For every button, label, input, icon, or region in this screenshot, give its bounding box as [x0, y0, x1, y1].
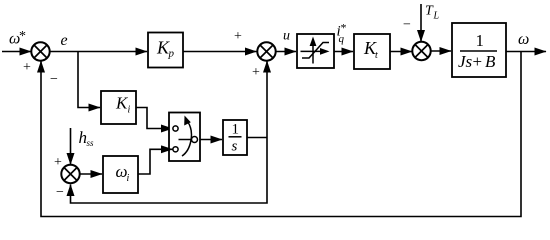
label TL (load torque): [425, 4, 440, 22]
wire plant output to omega: [506, 51, 546, 53]
svg-text:L: L: [433, 11, 440, 22]
wire switch to integrator: [200, 139, 222, 141]
svg-text:t: t: [375, 50, 378, 61]
svg-text:+: +: [234, 29, 242, 44]
wire e branch down to Ki: [78, 52, 100, 108]
wire S3 to plant block: [431, 50, 452, 52]
svg-text:u: u: [283, 29, 290, 44]
svg-text:−: −: [50, 72, 58, 87]
wire S4 to omega_i: [80, 173, 103, 175]
wire node up into S2: [266, 61, 268, 138]
svg-text:1: 1: [232, 122, 240, 138]
svg-text:i: i: [127, 173, 130, 184]
wire saturation to Kt: [334, 51, 353, 53]
svg-text:+: +: [252, 65, 260, 80]
svg-text:q: q: [339, 33, 345, 45]
wire integrator output to node: [247, 137, 267, 139]
wire Kt to S3: [390, 51, 412, 53]
svg-text:−: −: [56, 185, 64, 200]
label iq* (current reference): [337, 21, 347, 45]
svg-text:−: −: [403, 17, 411, 32]
summing junction S2: [257, 42, 275, 60]
wire node down and left to S4 (inner feedback): [71, 138, 268, 204]
svg-text:B: B: [485, 52, 496, 71]
block Kt: [354, 34, 390, 69]
wire omega_i to switch bottom input: [138, 149, 173, 174]
block saturation limiter U-sat: [297, 34, 334, 68]
wire Kp to S2: [183, 51, 257, 53]
svg-text:p: p: [168, 48, 175, 60]
svg-text:*: *: [19, 29, 26, 44]
svg-text:+: +: [473, 52, 483, 71]
block plant 1/(Js+B): [452, 23, 506, 77]
svg-text:ω: ω: [518, 31, 529, 48]
block Kp: [148, 33, 183, 68]
svg-text:1: 1: [476, 31, 485, 50]
wire hss down into S4: [70, 128, 72, 165]
summing junction S3: [412, 42, 430, 60]
svg-text:+: +: [54, 155, 62, 170]
summing junction S1: [31, 42, 49, 60]
wire S1 to Kp: [50, 51, 148, 53]
wire S2 to saturation block: [276, 51, 297, 53]
block switch SW: [169, 113, 200, 162]
wire TL down into S3: [420, 4, 422, 42]
block integrator 1/s: [223, 120, 247, 155]
wire input omega* to S1: [2, 51, 31, 53]
svg-text:ss: ss: [87, 138, 95, 148]
svg-text:+: +: [23, 60, 31, 75]
svg-text:i: i: [128, 105, 131, 116]
label omega* (reference speed): [9, 29, 26, 48]
summing junction S4: [61, 165, 79, 183]
svg-text:e: e: [61, 32, 68, 49]
label hss: [79, 128, 95, 148]
wire Ki to switch top input: [136, 108, 173, 129]
block Ki: [101, 91, 136, 124]
svg-text:*: *: [341, 21, 347, 35]
svg-text:Js: Js: [458, 52, 473, 71]
wire outer feedback: down from output, along bottom, up into S1: [41, 52, 521, 217]
block omega_i: [103, 156, 138, 193]
svg-text:s: s: [232, 139, 238, 155]
